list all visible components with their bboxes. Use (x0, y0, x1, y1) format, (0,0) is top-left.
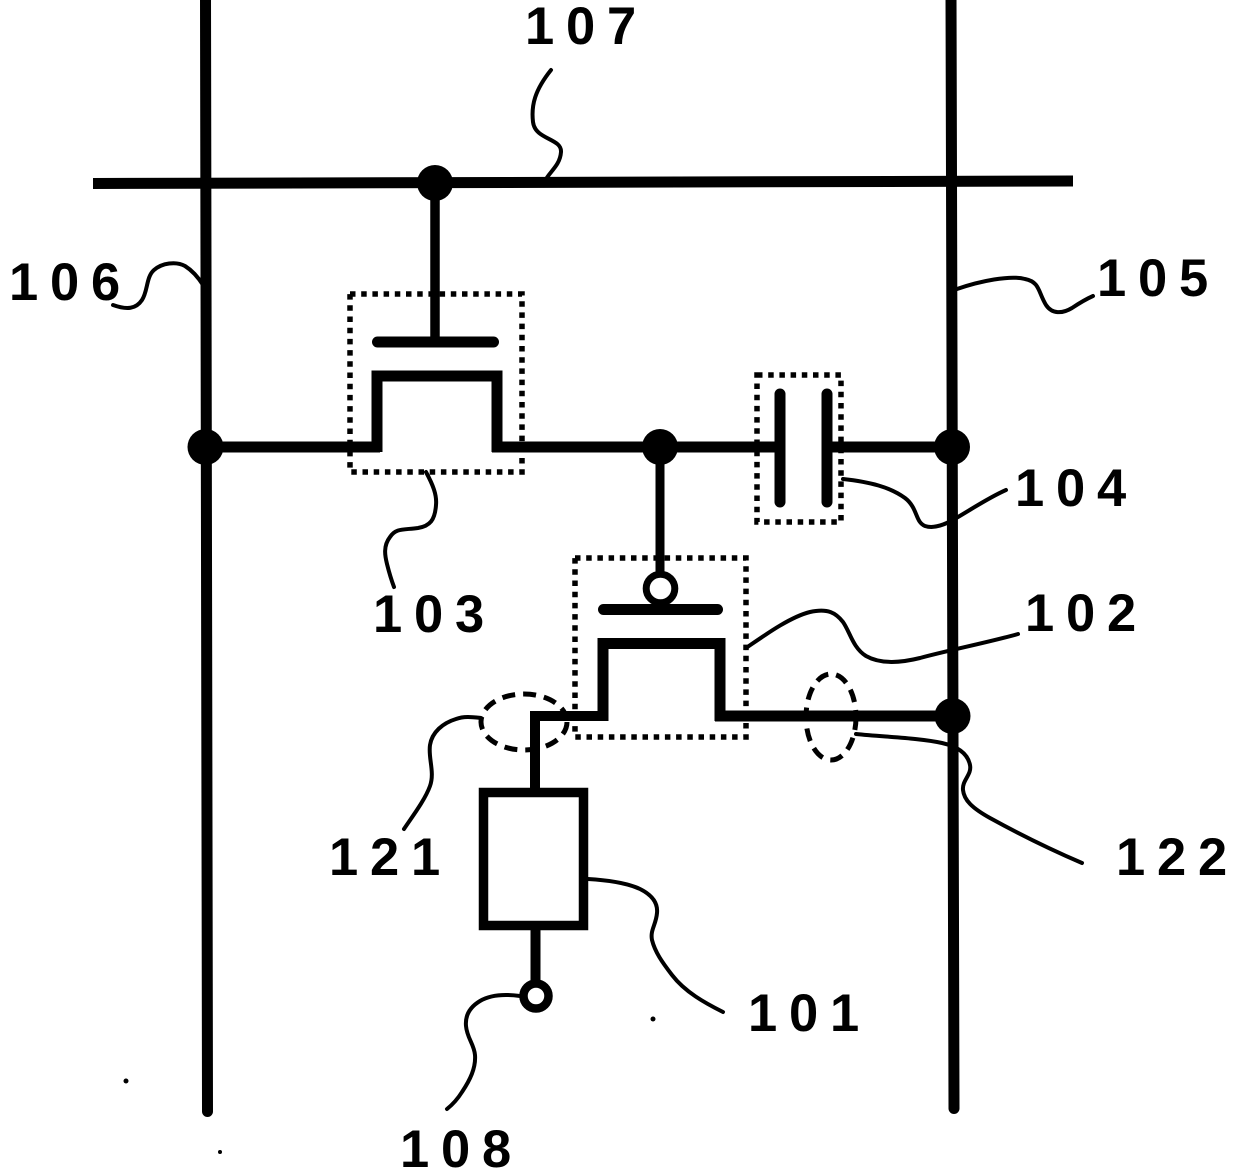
svg-text:102: 102 (1025, 584, 1148, 643)
svg-text:106: 106 (9, 253, 132, 312)
node dot center (gate of 102) (642, 429, 678, 465)
leader line for label 101 (588, 879, 723, 1012)
svg-text:105: 105 (1097, 249, 1220, 308)
transistor Q102 gate bubble (p-type) (646, 574, 675, 603)
leader line for label 106 (113, 263, 203, 308)
capacitor C104 left plate (775, 394, 786, 502)
leader line for label 103 (385, 472, 436, 587)
transistor Q102 gate bar (604, 604, 718, 615)
transistor Q103 dotted enclosure (350, 294, 522, 472)
wire: right bus line (power supply line 105) (951, 0, 954, 1109)
node dot right bus / capacitor wire (934, 429, 970, 465)
stray speck bottom-left (124, 1079, 129, 1084)
terminal circle 108 (524, 984, 549, 1009)
svg-text:107: 107 (525, 0, 648, 56)
wire: element 101 to terminal 108 (531, 928, 541, 982)
svg-text:121: 121 (329, 828, 452, 887)
wire: transistor 103 drain to node and capacitor 104 (492, 442, 778, 453)
leader line for label 107 (533, 70, 562, 181)
node dot left bus / wire (188, 429, 224, 465)
wire: transistor 102 source corner down to element 101 (535, 716, 606, 790)
transistor Q103 gate bar (378, 337, 494, 348)
svg-text:108: 108 (400, 1120, 523, 1171)
wire: gate lead of transistor 102 (656, 447, 665, 574)
stray speck near label 101 (651, 1017, 656, 1022)
wire: transistor 102 drain to right bus (715, 711, 952, 722)
svg-text:122: 122 (1116, 828, 1239, 887)
dashed ellipse 122 (contact region) (806, 674, 856, 760)
leader line for label 108 (447, 995, 520, 1109)
transistor Q103 channel (source-drain staple) (377, 376, 497, 452)
wire: left bus line (signal line 106) (206, 0, 208, 1112)
leader line for label 121 (404, 717, 481, 829)
leader line for label 105 (957, 278, 1093, 312)
capacitor C104 dotted enclosure (757, 375, 841, 522)
leader line for label 102 (746, 611, 1018, 662)
transistor Q102 channel (source-drain staple) (603, 644, 720, 722)
node dot right bus / drain wire (935, 698, 971, 734)
node dot on line 107 (417, 165, 453, 201)
svg-text:104: 104 (1015, 459, 1138, 518)
svg-text:101: 101 (748, 984, 871, 1043)
svg-text:103: 103 (373, 585, 496, 644)
capacitor C104 right plate (822, 394, 833, 502)
wire: capacitor 104 to right bus (829, 442, 952, 453)
leader line for label 122 (856, 734, 1082, 863)
dashed ellipse 121 (contact region) (481, 694, 567, 750)
leader line for label 104 (843, 479, 1006, 527)
EL element 101 rectangle (484, 793, 584, 926)
wire: left bus to transistor 103 source (205, 442, 380, 453)
wire: horizontal scan line 107 (93, 181, 1073, 184)
wire: gate lead of transistor 103 (430, 183, 440, 344)
transistor Q102 dotted enclosure (575, 558, 746, 737)
stray speck below left bus (218, 1150, 222, 1154)
